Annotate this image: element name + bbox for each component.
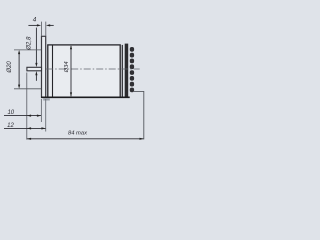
svg-text:Ø20: Ø20 <box>7 61 13 74</box>
centerline <box>46 68 140 70</box>
dark band <box>125 44 129 98</box>
terminal pin <box>27 67 42 71</box>
body left seam <box>52 45 54 97</box>
dimension 4 lines <box>28 24 37 26</box>
dimension 10 line <box>4 115 41 117</box>
body right ring line <box>121 45 123 97</box>
svg-text:Ø34: Ø34 <box>64 61 70 73</box>
flange right extension line <box>45 99 47 132</box>
svg-text:Ø2,8: Ø2,8 <box>25 36 32 51</box>
svg-text:84 max: 84 max <box>68 131 88 137</box>
diameter 34 dimension line <box>70 46 72 96</box>
dimension 12 line <box>4 127 46 129</box>
diameter 20 extension lines <box>14 49 41 51</box>
svg-text:10: 10 <box>7 110 14 116</box>
svg-text:12: 12 <box>7 123 14 129</box>
dimension 4 extension lines <box>41 22 43 36</box>
pin tip datum extension line <box>26 73 28 140</box>
diameter 20 dimension line <box>18 52 20 87</box>
flange left extension line <box>40 99 42 122</box>
body cylinder outline <box>48 45 120 97</box>
dimension 84 max line <box>27 138 144 140</box>
diameter 2,8 dimension line lower <box>35 75 37 81</box>
svg-text:4: 4 <box>33 16 37 23</box>
flange disc <box>42 36 46 97</box>
shadow smudge under flange <box>43 98 50 100</box>
corrugated bumps <box>130 47 134 92</box>
right end jog extension line <box>134 91 144 139</box>
bottom edge thick line <box>41 96 130 98</box>
diameter 2,8 dimension line upper <box>35 28 37 64</box>
